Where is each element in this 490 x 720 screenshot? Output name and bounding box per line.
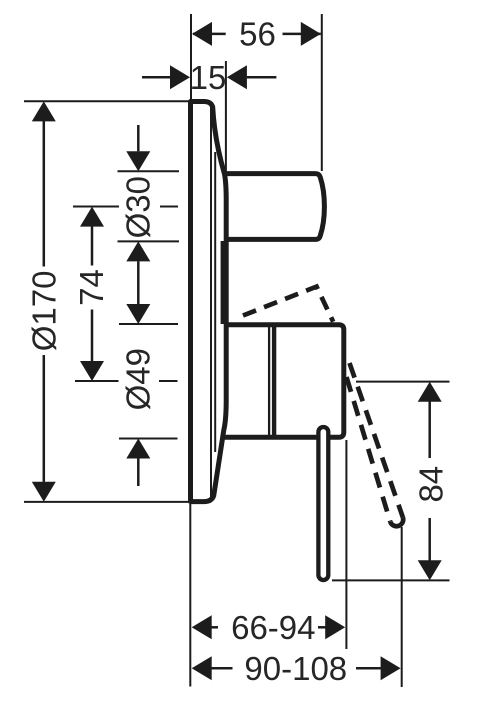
svg-text:15: 15	[190, 59, 227, 96]
svg-text:74: 74	[73, 269, 110, 306]
svg-text:84: 84	[412, 466, 449, 503]
svg-text:Ø49: Ø49	[120, 348, 157, 410]
svg-text:Ø30: Ø30	[119, 176, 156, 238]
svg-text:Ø170: Ø170	[25, 271, 62, 352]
svg-text:56: 56	[239, 16, 276, 53]
svg-text:66-94: 66-94	[231, 609, 315, 646]
svg-text:90-108: 90-108	[244, 650, 347, 687]
